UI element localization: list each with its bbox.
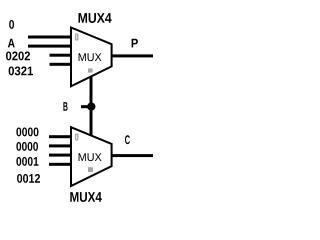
pin marker: U2 select (grey square) [88,167,93,172]
junction: node B solder dot [87,102,95,110]
net label: P on U1 output [132,39,138,48]
net label: constant 0 on U1 input 0 [9,20,14,29]
net label: C on U2 output [125,135,130,144]
pin label: U2 input 0 (grey "0") [76,134,78,140]
label: U2 type "MUX4" [70,192,102,202]
net label: value 0202 on U1 input 2 [6,51,30,60]
wire: mux U2 output C [112,154,153,157]
label: U1 type "MUX4" [79,13,112,23]
wire: mux U2 input 2 [49,154,72,157]
wire: mux U1 select vertical segment [90,74,93,107]
wire: mux U1 input 0 [28,36,72,39]
net label: A on U1 input 1 [8,39,15,48]
wire: mux U1 input 2 [50,54,72,57]
wire: mux U1 output P [112,54,153,57]
multiplexer U2 body (MUX4 trapezoid) [71,127,112,186]
label: U1 function "MUX" [79,53,102,61]
multiplexer U1 body (MUX4 trapezoid) [71,28,112,87]
wire: mux U2 input 0 [49,135,72,138]
wire: mux U2 input 3 [49,163,72,166]
net label: value 0001 on U2 input 2 [16,157,38,166]
net label: value 0000 on U2 input 1 [16,142,38,151]
wire: mux U1 input 1 (net A) [28,45,72,48]
pin label: U1 input 0 (grey "0") [76,34,78,40]
net label: value 0321 on U1 input 3 [9,66,33,75]
wire: mux U1 input 3 [50,63,72,66]
net label: value 0012 on U2 input 3 [17,174,40,183]
pin marker: U1 select (grey square) [88,68,93,72]
net label: value 0000 on U2 input 0 [16,127,38,136]
wire: node B horizontal segment [81,105,92,108]
wire: mux U2 input 1 [49,144,72,147]
net label: B on select node [63,102,67,111]
label: U2 function "MUX" [79,153,102,161]
wire: mux U2 select vertical segment [90,106,93,139]
